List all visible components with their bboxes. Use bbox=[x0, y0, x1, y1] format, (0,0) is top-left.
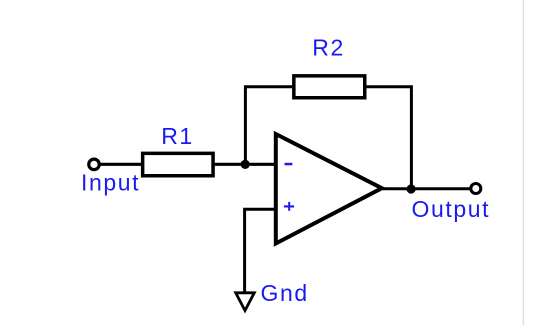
op-amp U1 bbox=[276, 134, 382, 244]
wire non-inverting input stub bbox=[245, 209, 277, 291]
input terminal bbox=[89, 159, 100, 170]
wire op-amp output to terminal bbox=[382, 187, 471, 190]
node A junction dot bbox=[241, 160, 250, 169]
resistor R1 bbox=[143, 153, 213, 175]
wire feedback up-left from node A to R2 bbox=[245, 87, 294, 165]
wire input to R1 bbox=[99, 163, 144, 166]
svg-text:R2: R2 bbox=[312, 35, 345, 61]
svg-text:Gnd: Gnd bbox=[261, 280, 309, 306]
resistor R2 bbox=[294, 76, 365, 98]
svg-text:Input: Input bbox=[81, 169, 140, 195]
svg-text:R1: R1 bbox=[161, 123, 194, 149]
panel divider line bbox=[523, 0, 524, 325]
wire feedback from R2 down to output node bbox=[365, 87, 411, 189]
op-amp inverting pin minus sign bbox=[285, 163, 293, 166]
svg-text:Output: Output bbox=[412, 196, 491, 222]
op-amp non-inverting pin plus sign bbox=[284, 202, 294, 211]
output terminal bbox=[471, 184, 481, 194]
wire R1 to node A bbox=[213, 163, 277, 166]
ground bbox=[236, 293, 255, 311]
output node junction dot bbox=[407, 184, 416, 193]
